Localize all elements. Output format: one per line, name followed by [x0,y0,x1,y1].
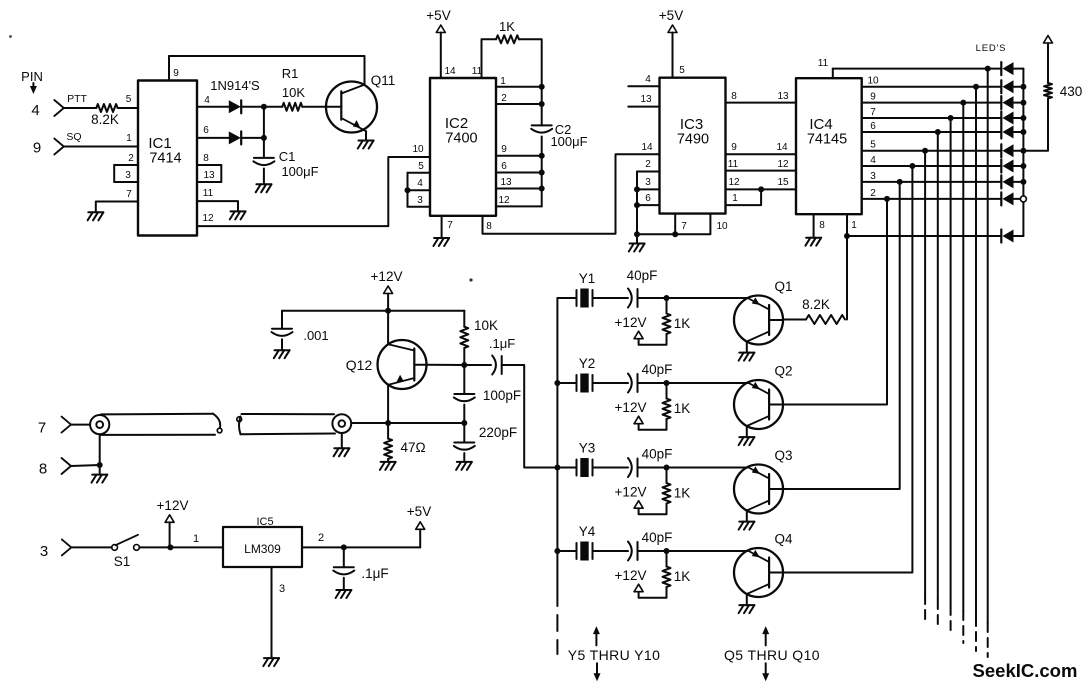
wire IC4 pin 1 to LED 10 [847,235,1001,237]
ground Q4 [739,605,755,613]
svg-text:1: 1 [193,533,199,545]
wire IC3 bottom to pins 7-10 [637,214,710,235]
svg-text:9: 9 [33,140,41,157]
label Q2 [774,364,792,379]
pin 3 label IC2 [417,195,423,206]
junction anode bus LED 8 [1020,179,1026,185]
svg-text:IC5: IC5 [256,516,273,528]
junction Q12 base node [461,362,467,368]
wire pin 7 to coax [71,424,90,426]
junction emitter row / 100pF [461,420,467,426]
wire .1uF to ground [343,578,345,590]
pin 13 label IC3 [640,94,652,105]
label Q1 [774,279,792,294]
svg-text:7: 7 [126,189,132,200]
svg-text:7400: 7400 [445,131,477,147]
diode D2 1N914 [229,131,241,144]
value .1uF label (IC5) [361,566,388,581]
wire IC1 pin 12 to IC2 pin 10 [197,157,430,226]
junction LED 1 tap [985,66,991,72]
wire bus to crystal Y4 [557,550,576,552]
power +12V (Y1) [615,315,647,339]
wire IC1 pin 9 stub to top rail [168,56,170,81]
svg-text:+12V: +12V [615,400,647,415]
power +12V at S1 [157,498,189,522]
pin 2 label IC1 [128,153,134,164]
pin 6 label IC2 [501,161,507,172]
value 1K label (Y3) [674,486,691,501]
wire 100pF top [463,365,465,394]
value 1K label (IC2) [499,19,515,34]
wire Y4 to 40pF [593,550,629,552]
wire IC2 pin 7 to ground [441,216,443,238]
ground IC4 pin 8 [805,238,821,246]
wire pin1 node down to R 8.2K [846,236,848,320]
junction diodes node A [261,104,267,110]
resistor 8.2K (PTT) [96,104,117,112]
wire row pin11 drop to Q5 (off page) [987,69,989,657]
junction IC2 pin 1 bus [539,84,545,90]
svg-text:1: 1 [126,133,132,144]
wire Q2 to ground [746,426,748,437]
svg-text:2: 2 [501,93,507,104]
pin 3 label IC1 [125,170,131,181]
pin 5 label IC1 [126,94,132,105]
svg-text:Q2: Q2 [774,364,792,379]
wire IC4 pin 2 to LED 9 [862,198,1002,200]
svg-text:8: 8 [486,221,492,232]
svg-text:R1: R1 [282,66,299,81]
capacitor C2 100uF [531,125,552,132]
svg-text:6: 6 [870,121,876,132]
label Q4 [774,532,793,547]
pin 9 input connector [54,139,64,155]
junction IC2 pin 2 bus [539,101,545,107]
svg-text:12: 12 [498,195,510,206]
capacitor 40pF (Y2) [628,374,638,393]
pin 1 label IC4 [851,220,857,231]
svg-text:8: 8 [203,153,209,164]
wire Y2 to 40pF [593,382,629,384]
svg-text:SeekIC.com: SeekIC.com [973,660,1078,681]
svg-text:Q4: Q4 [774,532,793,547]
LED D4 [1001,112,1013,125]
crystal Y1 [577,289,593,308]
wire LED 10 to anode bus [1014,235,1024,237]
ground 47R [380,462,396,470]
wire row pin7 drop to Q8 (off page) [950,118,952,634]
svg-text:+5V: +5V [426,8,450,23]
net SQ label [66,131,81,143]
label IC5 [256,516,273,528]
value 8.2K label (Q1) [802,297,830,312]
IC U3 7490 decade counter [660,78,726,214]
wire IC1 pin 13 stub [197,181,221,183]
wire IC4 pin 1 stub down [846,214,848,236]
svg-text:1K: 1K [674,569,691,584]
speck artifact 1 [9,35,12,38]
svg-text:7490: 7490 [677,132,709,148]
svg-text:+5V: +5V [407,504,431,519]
svg-text:7: 7 [870,107,876,118]
wire IC1 pin 11 to ground [197,201,238,211]
wire LED 5 to anode bus [1014,131,1024,133]
transistor Q12 [378,340,427,389]
ground .001 cap [274,350,290,358]
svg-text:+12V: +12V [615,315,647,330]
svg-text:14: 14 [444,66,456,77]
svg-text:4: 4 [870,155,876,166]
svg-text:IC2: IC2 [445,115,468,132]
svg-text:8.2K: 8.2K [91,112,119,127]
power supply arrow (LEDs) [1044,36,1053,44]
value 10K label R1 [282,85,305,100]
svg-text:4: 4 [31,102,39,119]
wire IC3 pin 3 stub [637,188,660,190]
wire pin 8 to shield node [71,465,100,466]
svg-text:6: 6 [501,161,507,172]
svg-text:1: 1 [851,220,857,231]
svg-text:14: 14 [641,142,653,153]
svg-text:1: 1 [732,193,738,204]
LED D2 [1001,80,1013,93]
wire LED 6 to anode bus [1014,150,1024,152]
wire IC2 pin 11 to 1K [482,39,497,78]
label Y4 [579,524,596,539]
junction anode bus LED 9 (open) [1020,196,1026,202]
wire IC3 pin 8 to IC4 pin 13 [726,102,797,104]
wire 1K bottom loop (Y1) [639,334,667,345]
wire 40pF to Q1 node [638,297,667,299]
wire coax2 shield to ground [341,434,343,449]
svg-text:IC1: IC1 [148,135,171,152]
wire node to Q4 [667,550,748,552]
svg-text:9: 9 [501,144,507,155]
svg-text:Y2: Y2 [579,356,596,371]
wire coax1 shield to ground node [99,435,101,465]
pin 10 label IC3 [716,221,728,232]
svg-text:5: 5 [126,94,132,105]
wire node to Q2 [667,382,748,384]
wire row pin9 drop to Q7 (off page) [962,103,964,643]
svg-text:.1μF: .1μF [361,566,388,581]
pin 10 label IC4 output [867,76,879,87]
wire top rail pin9 to Q11 collector [169,56,365,85]
svg-text:+12V: +12V [371,269,403,284]
pin 4 label IC1 output [204,95,210,106]
junction IC4 pin 1 node [844,233,850,239]
pin 7 label IC1 [126,189,132,200]
resistor 1K (Y2) [663,399,671,420]
wire PTT input to R 8.2K [64,107,97,109]
pin 2 label IC3 [645,159,651,170]
pin 3 label IC4 output [870,171,876,182]
junction anode bus LED 6 [1020,148,1026,154]
pin 7 label IC3 [681,221,687,232]
pin 7 input connector [62,417,72,433]
svg-text:SQ: SQ [66,131,81,143]
value 40pF label (Y2) [642,362,673,377]
wire IC3 ground stub [636,234,638,243]
svg-text:Y1: Y1 [579,271,596,286]
svg-text:Q12: Q12 [346,357,373,373]
transistor Q4 [734,548,783,597]
crystal Y4 [577,542,593,561]
junction IC3 pin 3 tie [634,186,640,192]
resistor R1 10K [282,103,302,111]
svg-text:3: 3 [279,583,285,595]
wire supply to 430 [1047,43,1049,83]
pin 9 label IC2 [501,144,507,155]
svg-text:8.2K: 8.2K [802,297,830,312]
PIN down arrow [30,83,37,94]
pin 4 input label [31,102,39,119]
wire IC4 pin 10 to LED 2 [862,86,1002,88]
node PIN header label [21,69,43,84]
label Y2 [579,356,596,371]
pin 9 label IC3 [731,142,737,153]
svg-text:.1μF: .1μF [489,336,515,351]
svg-text:6: 6 [645,193,651,204]
pin 13 label IC2 [500,177,512,188]
junction bus Y4 [554,548,560,554]
svg-text:+12V: +12V [615,568,647,583]
wire row pin4 to Q4 output [783,166,912,573]
pin 11 label IC2 [472,66,483,77]
crystal Y3 [577,458,593,477]
wire IC1 pin 3 stub [114,181,138,183]
svg-text:7: 7 [447,220,453,231]
wire +5V to IC3 pin 5 [672,33,674,78]
wire crystal bus vertical [556,298,558,592]
wire 40pF to Q3 node [638,467,667,469]
junction Y3 / 1K / Q3 [664,465,670,471]
label C1 [279,149,296,164]
IC U1 7414 hex schmitt inverter [138,81,197,236]
junction IC2 pin 9 bus [539,153,545,159]
svg-text:11: 11 [203,188,214,199]
wire 8.2K to Q1 base [783,319,806,321]
wire row pin3 to Q3 output [783,182,900,489]
pin 8 label IC1 [203,153,209,164]
wire emitter row [352,422,465,424]
pin 3 input label [40,543,48,560]
wire IC4 pin 11 to LED 1 [833,68,1002,70]
wire rail to .001 cap [281,311,283,329]
arrow down (Y5 thru Y10) [594,663,601,681]
wire IC3 pin 2 stub [637,171,660,173]
svg-text:IC4: IC4 [809,116,832,133]
pin 2 label IC4 output [870,188,876,199]
crystal Y2 [577,374,593,393]
ground IC5 pin 3 [263,658,279,666]
pin 13 label IC4 [777,91,789,102]
ground IC1 pin 7 [88,212,104,220]
wire IC1 pin 7 to ground [96,202,138,213]
pin 1 label IC5 [193,533,199,545]
value 40pF label (Y1) [627,268,658,283]
IC U2 7400 quad NAND [430,78,496,216]
wire 1K top (Y1) [666,298,668,314]
LED D8 [1001,175,1013,188]
junction Q12 emitter / 47R [385,420,391,426]
wire bus to crystal Y3 [557,467,576,469]
svg-text:40pF: 40pF [642,362,673,377]
wire +12V arrow to rail [387,294,389,311]
watermark SeekIC.com [973,660,1078,681]
svg-text:9: 9 [870,92,876,103]
svg-text:10K: 10K [474,318,498,333]
svg-text:1K: 1K [674,486,691,501]
junction Y1 / 1K / Q1 [664,295,670,301]
svg-text:12: 12 [202,213,214,224]
svg-text:9: 9 [173,68,179,79]
pin 8 label IC2 [486,221,492,232]
capacitor 40pF (Y4) [628,542,638,561]
value 100uF label C1 [281,164,318,179]
svg-text:14: 14 [776,142,788,153]
svg-text:100μF: 100μF [281,164,318,179]
junction IC2 pin 6 bus [539,170,545,176]
wire IC1 pins 8-13 tie bracket [220,165,222,182]
junction anode bus LED 2 [1020,84,1026,90]
coax cable segment 1 [90,414,222,435]
wire 1K top (Y3) [666,468,668,484]
capacitor 40pF (Y1) [628,289,638,308]
wire pin 3 to switch [71,546,112,548]
svg-text:Y4: Y4 [579,524,596,539]
value 1K label (Y2) [674,401,691,416]
wire IC2 pin 12 [496,205,542,207]
svg-text:11: 11 [728,159,739,170]
svg-text:LM309: LM309 [244,542,281,556]
wire IC2 pin 3 stub [408,206,431,208]
pin 6 label IC1 output [203,125,209,136]
value 220pF label [479,425,517,440]
svg-text:IC3: IC3 [680,116,703,133]
switch S1 [112,535,140,551]
svg-text:Y3: Y3 [579,441,596,456]
resistor 47 ohm [384,439,392,459]
wire 1K bottom loop (Y3) [639,504,667,515]
capacitor .001 [272,329,293,336]
resistor 430 ohm [1044,83,1052,98]
wire +12V to junction [169,522,171,547]
svg-text:7414: 7414 [149,151,181,167]
label Q3 [774,448,792,463]
label Q5 THRU Q10 [724,647,820,663]
svg-text:3: 3 [40,543,48,560]
wire 100pF bottom [463,405,465,423]
LED D10 [1001,230,1013,243]
junction anode bus LED 4 [1020,115,1026,121]
svg-text:Q1: Q1 [774,279,792,294]
svg-text:S1: S1 [114,554,131,569]
wire IC2 pins 5-4-3 tie [407,173,409,207]
wire LED 4 to anode bus [1014,117,1024,119]
wire IC2 pin 8 to IC3 pin 14 [483,154,660,234]
junction LED 4 tap [948,115,954,121]
value 40pF label (Y3) [642,447,673,462]
svg-text:2: 2 [318,532,324,544]
transistor Q2 [734,380,783,429]
svg-text:2: 2 [870,188,876,199]
wire 1K to right bus [519,39,542,86]
svg-text:C1: C1 [279,149,296,164]
pin 3 label IC3 [645,177,651,188]
pin 9 input label [33,140,41,157]
svg-text:10: 10 [867,76,879,87]
wire IC3 pin 9 to IC4 pin 14 [726,153,797,155]
pin 8 label IC4 [819,220,825,231]
pin 13 label IC1 [203,170,215,181]
pin 1 label IC3 [732,193,738,204]
svg-text:9: 9 [731,142,737,153]
svg-text:12: 12 [777,159,789,170]
wire IC1 pin 2 stub [114,164,138,166]
svg-text:4: 4 [417,178,423,189]
svg-text:.001: .001 [303,328,328,343]
junction D2 node [261,135,267,141]
wire D2 to junction [242,137,264,139]
capacitor 100pF [454,394,475,401]
wire IC4 pin 5 to LED 6 [862,150,1002,152]
pin 6 label IC3 [645,193,651,204]
capacitor 220pF [454,443,475,450]
value 1K label (Y1) [674,316,691,331]
transistor Q3 [734,465,783,514]
label S1 [114,554,131,569]
svg-text:3: 3 [125,170,131,181]
wire LED 2 to anode bus [1014,86,1024,88]
wire 220pF top [463,423,465,443]
junction LED 2 tap [973,84,979,90]
wire LED 7 to anode bus [1014,165,1024,167]
resistor 1K (Y1) [663,314,671,335]
wire LED 1 to anode bus [1014,68,1024,70]
wire 1K top (Y2) [666,383,668,399]
value .1uF label (Q12) [489,336,515,351]
transistor Q11 [326,82,377,133]
resistor 1K (IC2 feedback) [496,35,519,43]
svg-text:74145: 74145 [807,132,847,148]
pin 8 input label [39,461,47,478]
LED D9 [1001,192,1013,205]
pin 4 label IC4 output [870,155,876,166]
svg-text:12: 12 [728,177,740,188]
ground 220pF [456,462,472,470]
svg-text:1K: 1K [499,19,515,34]
svg-text:40pF: 40pF [642,530,673,545]
svg-text:11: 11 [818,58,829,69]
svg-text:Y5 THRU Y10: Y5 THRU Y10 [568,647,661,663]
wire 1K top (Y4) [666,551,668,567]
svg-text:40pF: 40pF [627,268,658,283]
value .001 label [303,328,328,343]
transistor Q1 [734,296,783,345]
ground coax shield [92,475,108,483]
wire IC3 pin 12 to IC4 pin 15 [726,188,797,190]
power +5V output [407,504,431,529]
wire IC1 pins 2-3 tie bracket [113,165,115,182]
wire .1uF to crystal bus [502,365,558,468]
svg-text:8: 8 [731,91,737,102]
junction IC3 pin 12 / pin 1 [758,186,764,192]
junction IC2 pin 13 bus [539,186,545,192]
svg-text:PTT: PTT [67,93,87,105]
pin 11 label IC3 [728,159,739,170]
arrow up (Q5 thru Q10) [762,626,769,645]
